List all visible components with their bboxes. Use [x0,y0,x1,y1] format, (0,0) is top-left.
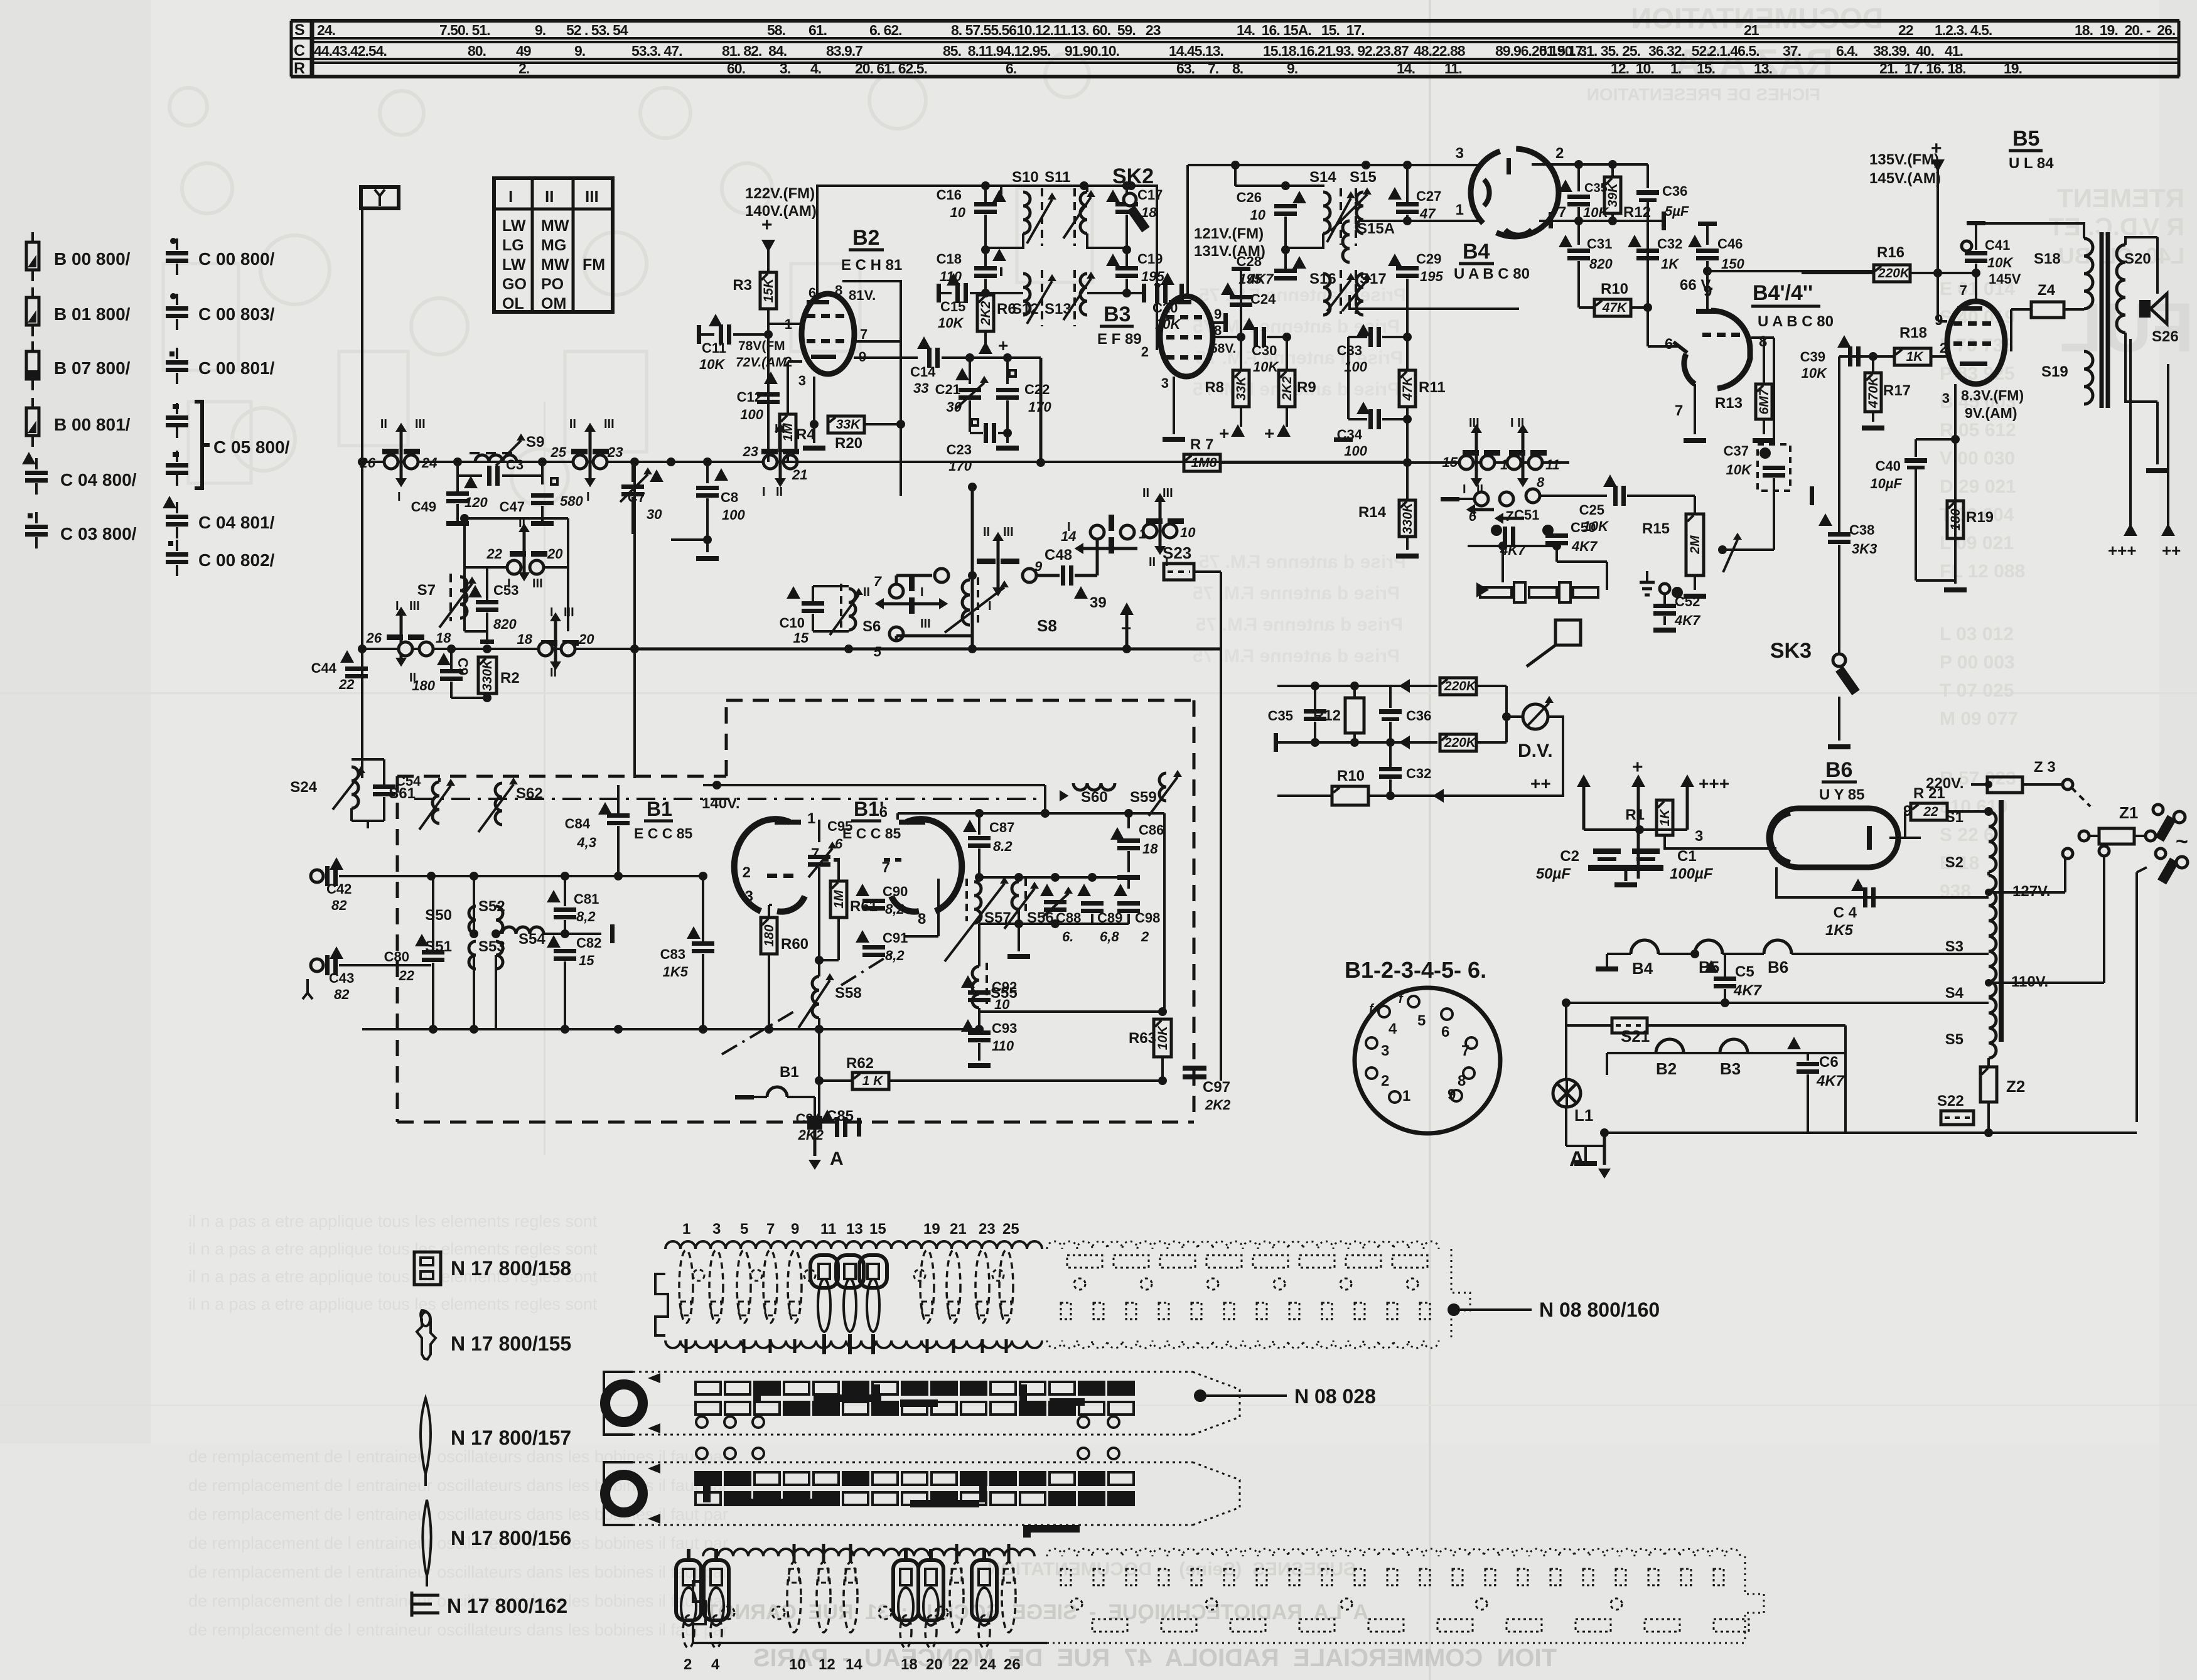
wire DV top [1277,685,1390,687]
svg-text:131V.(AM): 131V.(AM) [1194,243,1265,260]
svg-text:9V.(AM): 9V.(AM) [1965,405,2017,421]
wire IF2 top [1156,185,1158,186]
svg-text:I: I [550,606,554,619]
svg-text:C98: C98 [1135,910,1160,926]
svg-text:14. 16. 15A. 15. 17.: 14. 16. 15A. 15. 17. [1237,22,1365,38]
svg-text:R4: R4 [796,426,815,443]
svg-text:S24: S24 [290,779,317,796]
svg-text:47K: 47K [1602,301,1628,315]
svg-text:C86: C86 [1139,822,1164,838]
svg-text:7: 7 [874,574,883,589]
speaker S26 [2139,300,2151,318]
svg-text:7: 7 [1960,282,1967,298]
svg-text:61.: 61. [808,22,827,38]
svg-text:+: + [998,336,1008,355]
svg-text:140V.(AM): 140V.(AM) [745,203,817,220]
svg-text:N 17 800/158: N 17 800/158 [451,1257,571,1280]
svg-text:Prise d antenne F.M. 75: Prise d antenne F.M. 75 [1196,614,1403,635]
svg-text:III: III [409,599,420,613]
A arrow power [1600,1128,1609,1137]
socket pin 9 [1451,1090,1462,1101]
capacitor C36b [1389,686,1392,708]
coil S15A [1343,221,1350,262]
socket pin 7 [1466,1037,1477,1049]
svg-text:III: III [604,417,615,431]
svg-text:58.: 58. [767,22,785,38]
svg-text:I II: I II [1510,416,1524,430]
C1C2 ground [1588,865,1663,871]
svg-text:145V: 145V [1989,271,2021,287]
svg-text:330K: 330K [480,658,495,691]
svg-text:8.2: 8.2 [993,838,1013,854]
capacitor C36 [1646,164,1649,188]
svg-text:23: 23 [743,444,758,459]
capacitor C90 [856,884,869,896]
svg-text:B1-2-3-4-5- 6.: B1-2-3-4-5- 6. [1345,957,1486,983]
svg-text:8,2: 8,2 [576,909,596,924]
coil S15 [1356,192,1363,233]
capacitor C20 [1127,292,1142,294]
wire plate bus 296 [816,185,1131,187]
svg-text:C16: C16 [937,187,962,203]
capacitor C86 [1127,813,1130,828]
D.V. meter [1505,686,1508,742]
capacitor C91 [856,930,869,943]
svg-text:145V.(AM): 145V.(AM) [1869,170,1941,187]
svg-text:C40: C40 [1876,458,1901,474]
coil S51 [469,941,476,969]
svg-text:C83: C83 [660,946,685,962]
svg-text:1.: 1. [1670,60,1681,77]
svg-text:C15: C15 [940,299,965,314]
svg-text:8: 8 [918,911,926,928]
legend dial lamp B 07 800 [31,341,34,351]
svg-text:195: 195 [1238,271,1262,287]
coil S6 [849,589,856,630]
coil S60 [1073,783,1115,790]
svg-text:3.: 3. [780,60,790,77]
resistor R2 330K [478,657,497,693]
pickup jack [1555,620,1581,645]
svg-text:1K: 1K [1658,808,1672,827]
lamp L1 [1553,1079,1581,1107]
svg-text:I: I [586,490,590,504]
coil S10 [1001,185,1012,187]
svg-text:2: 2 [743,864,751,881]
svg-text:Prise d antenne F.M. 75: Prise d antenne F.M. 75 [1193,583,1400,604]
svg-text:II: II [380,417,387,431]
svg-text:180: 180 [1948,508,1963,530]
IF1 window frame [1000,186,1002,195]
svg-text:C36: C36 [1406,708,1431,724]
svg-text:R13: R13 [1715,395,1743,412]
svg-text:R V.D.C. ET: R V.D.C. ET [2049,213,2184,241]
svg-text:C29: C29 [1416,251,1441,267]
capacitor C24 [1232,267,1250,271]
svg-text:C11: C11 [702,340,726,356]
svg-text:S15: S15 [1350,169,1377,186]
svg-text:9.: 9. [535,22,545,38]
svg-text:6M7: 6M7 [1757,388,1771,414]
R21 wire to S1 [1947,810,1989,813]
svg-text:220V.: 220V. [1926,775,1964,792]
coil S55 [972,966,979,1008]
svg-text:N 17 800/162: N 17 800/162 [447,1595,567,1617]
svg-text:III: III [920,617,931,631]
svg-text:C91: C91 [883,930,908,946]
svg-text:63.: 63. [1176,60,1195,77]
svg-text:8. 57.55.56.: 8. 57.55.56. [951,22,1020,38]
socket pin 2 [1366,1067,1377,1079]
bottom heater rail [1574,1161,1597,1166]
capacitor C18 [992,249,1006,261]
svg-text:3: 3 [1381,1042,1389,1059]
svg-text:220K: 220K [1444,679,1477,693]
svg-text:2: 2 [684,1656,692,1673]
svg-text:6. 62.: 6. 62. [869,22,902,38]
svg-text:44.43.42.54.: 44.43.42.54. [314,43,387,59]
svg-text:C92: C92 [992,979,1017,995]
svg-text:14: 14 [846,1656,862,1673]
tube B4 (diodes) [1471,149,1559,237]
svg-text:2K2: 2K2 [1205,1097,1231,1113]
svg-text:de remplacement de l entraineu: de remplacement de l entraineur oscillat… [188,1505,728,1524]
svg-text:R1: R1 [1625,806,1645,823]
svg-text:6: 6 [835,836,843,852]
svg-text:C22: C22 [1024,382,1050,397]
svg-text:GO: GO [502,276,527,293]
stub bar [565,933,601,935]
resistor R63 10K [1154,1019,1171,1057]
svg-text:170: 170 [948,458,972,474]
switch comb strip lower [676,1544,1764,1673]
svg-text:100: 100 [722,507,745,523]
heater rail 2 [1566,1002,1989,1004]
SK3 switch [1774,495,1809,496]
svg-text:47K: 47K [1400,375,1415,401]
svg-text:I: I [1165,555,1169,569]
svg-text:B 07 800/: B 07 800/ [54,358,131,378]
svg-text:R8: R8 [1205,379,1224,396]
svg-text:C 04 800/: C 04 800/ [60,470,137,490]
svg-text:180: 180 [762,924,776,946]
coil S59 [1159,773,1166,801]
FM unit dashed enclosure [397,775,726,778]
capacitor C32b [1389,742,1392,767]
svg-text:C37: C37 [1724,443,1749,459]
resistor R3 15K [760,272,776,309]
svg-text:C87: C87 [989,820,1014,835]
svg-text:4K7: 4K7 [1674,613,1701,628]
resistor R13 6M7 [1756,384,1772,419]
svg-text:1K5: 1K5 [1825,922,1854,939]
svg-text:C7: C7 [628,490,645,505]
svg-text:L 09 021: L 09 021 [1940,533,2014,554]
socket pin 4 [1378,1006,1390,1017]
svg-text:21: 21 [792,467,807,483]
svg-text:2: 2 [1555,145,1564,162]
svg-text:R10: R10 [1601,281,1628,297]
svg-text:22: 22 [1898,22,1913,38]
wire bus to B2 [780,461,803,463]
coil S61 [432,782,439,823]
fuse Z2 [1988,1066,1989,1067]
svg-text:21: 21 [1744,22,1759,38]
svg-text:S51: S51 [425,938,452,955]
svg-text:580: 580 [560,493,583,509]
svg-text:7: 7 [811,845,819,862]
coil S56 [1012,882,1019,909]
svg-text:49: 49 [516,43,531,59]
svg-text:PO: PO [541,276,564,293]
svg-text:10.12.11.13.: 10.12.11.13. [1017,22,1089,38]
capacitor C47 [551,478,557,484]
svg-text:+: + [1264,424,1274,443]
svg-text:9: 9 [1448,1086,1456,1103]
svg-text:11: 11 [820,1221,836,1238]
svg-text:5µF: 5µF [1665,203,1689,219]
svg-text:C6: C6 [1819,1054,1839,1071]
svg-text:7: 7 [1675,402,1683,419]
B5 electrodes [1953,321,1962,326]
svg-text:C31: C31 [1587,236,1612,252]
capacitors C51 C50 [1491,525,1502,536]
svg-text:6,8: 6,8 [1100,929,1119,944]
svg-text:39: 39 [1090,594,1107,611]
primary winding S1-S5 [1989,811,1996,872]
svg-text:170: 170 [1028,399,1051,415]
switch contact 18-20 lower [541,640,557,646]
part icon N17800/162 [412,1594,439,1597]
svg-text:LG: LG [502,237,524,254]
svg-text:C24: C24 [1250,291,1276,307]
capacitor C87 [963,820,977,832]
svg-text:6: 6 [808,285,816,301]
svg-text:SURESNES (Seine) - DOCUMENT: SURESNES (Seine) - DOCUMENTATION [987,1559,1356,1580]
svg-text:5: 5 [874,644,882,660]
capacitor C3 [456,462,459,476]
resistor R11 47K [1406,337,1409,370]
svg-text:10K: 10K [938,315,964,331]
svg-text:C48: C48 [1045,547,1072,564]
svg-text:C 00 800/: C 00 800/ [198,249,275,269]
capacitor C29 [1407,221,1408,264]
svg-text:S54: S54 [518,931,545,948]
svg-text:de remplacement de l entraineu: de remplacement de l entraineur oscillat… [188,1620,728,1639]
svg-text:8,2: 8,2 [885,948,905,963]
resistor R61 1M [830,881,847,918]
svg-text:N 17 800/156: N 17 800/156 [451,1527,571,1549]
svg-text:10K: 10K [1726,462,1753,478]
svg-text:82: 82 [331,897,347,913]
svg-text:S13: S13 [1045,301,1072,318]
svg-text:C93: C93 [992,1020,1017,1036]
svg-text:C18: C18 [937,251,962,267]
coil S12 [1023,274,1030,315]
svg-text:C: C [294,42,305,60]
svg-text:220K: 220K [1444,736,1477,750]
svg-text:2: 2 [1381,1073,1389,1089]
wire S7 oscillator cell [465,517,568,520]
svg-text:1M: 1M [832,890,846,909]
capacitor C93 [961,1019,975,1032]
svg-text:3: 3 [1456,145,1464,162]
svg-text:820: 820 [1589,256,1613,272]
wire C14 to AVC bus [1039,358,1043,463]
svg-text:100: 100 [740,407,763,422]
svg-text:I: I [1067,520,1071,534]
svg-text:82: 82 [334,987,350,1002]
svg-text:R11: R11 [1419,379,1446,396]
svg-text:R18: R18 [1899,324,1927,341]
capacitor C40 [1916,438,1955,441]
svg-text:1M: 1M [781,423,795,442]
svg-text:4: 4 [711,1656,720,1673]
coil S8 [962,580,970,625]
svg-text:3: 3 [745,888,753,905]
capacitor C54 [383,759,385,784]
svg-text:C82: C82 [576,935,601,951]
svg-text:S8: S8 [1037,616,1057,635]
socket pin 6 [1441,1009,1453,1020]
wire Z4 feed [2011,351,2084,352]
B1 grid dashes [767,874,777,878]
part icon N17800/157 [421,1398,431,1474]
capacitor C37 dashed [1758,444,1790,491]
svg-text:4,3: 4,3 [576,835,596,850]
svg-text:11: 11 [1545,457,1560,473]
svg-text:C 00 803/: C 00 803/ [198,304,275,324]
part icon N17800/158 [414,1252,441,1285]
svg-text:I: I [920,586,924,599]
switch comb strip upper [655,1221,1470,1354]
svg-text:C35: C35 [1268,708,1293,724]
svg-text:60.: 60. [727,60,745,77]
svg-text:C26: C26 [1237,190,1262,205]
svg-text:C14: C14 [910,364,936,380]
svg-text:330K: 330K [1400,501,1415,534]
svg-text:37.: 37. [1783,43,1801,59]
svg-text:A: A [1569,1147,1585,1171]
legend dial lamp B 00 801 [31,398,34,408]
svg-text:18: 18 [1141,205,1157,220]
svg-text:C32: C32 [1406,766,1431,781]
pointer N 08 028 [1194,1389,1206,1402]
socket pin 8 [1463,1067,1475,1079]
svg-text:1K: 1K [1906,350,1925,364]
svg-text:C30: C30 [1252,343,1277,358]
svg-text:R60: R60 [781,936,808,953]
wire 140V top [703,784,1045,786]
svg-text:FICHES DE PRESENTATION: FICHES DE PRESENTATION [1587,85,1820,104]
svg-text:135V.(FM): 135V.(FM) [1869,151,1939,168]
legend dial lamp B 01 800 [31,287,34,297]
svg-text:S6: S6 [862,618,881,635]
svg-text:10µF: 10µF [1870,476,1902,491]
capacitor C16 [984,186,987,202]
resistor 220K lower [1440,734,1476,751]
svg-text:2: 2 [1940,340,1947,356]
svg-text:7: 7 [882,859,890,876]
svg-text:S53: S53 [478,938,505,955]
svg-text:4K7: 4K7 [1816,1073,1845,1089]
svg-text:B3: B3 [1104,302,1131,326]
svg-text:6: 6 [879,804,888,821]
legend capacitor C 03 800 [35,512,38,523]
heater bumps B4 B5 B6 [1596,966,1618,971]
svg-text:B 00 801/: B 00 801/ [54,415,131,434]
svg-text:15: 15 [1442,454,1458,470]
capacitor C28 [1274,269,1297,273]
svg-text:25: 25 [551,444,567,460]
svg-text:C23: C23 [947,442,972,457]
svg-text:C38: C38 [1849,522,1874,538]
svg-text:III: III [532,577,543,591]
svg-text:C25: C25 [1579,502,1604,518]
coil S16 [1323,274,1330,315]
svg-text:C85: C85 [826,1108,854,1125]
svg-text:+: + [1121,618,1131,638]
svg-text:C 03 800/: C 03 800/ [60,524,137,543]
svg-text:1: 1 [1402,1088,1410,1105]
capacitor C46 [1698,222,1717,226]
socket pin 5 [1408,996,1419,1007]
wire S59 tank [1163,813,1166,1012]
resistor R7 1M8 [1184,454,1220,471]
resistor R10 47K [1594,299,1631,316]
svg-text:820: 820 [493,616,517,632]
svg-text:7: 7 [860,326,868,342]
svg-text:S9: S9 [526,434,544,451]
wire DV mid [1274,733,1278,752]
capacitor C94 [819,1114,820,1127]
capacitor C15 [937,284,941,302]
svg-text:S17: S17 [1360,270,1387,287]
svg-text:RTEMENT: RTEMENT [2057,183,2184,213]
trimmer C95 [819,813,820,853]
B+ feeds +++ [2129,339,2132,535]
svg-text:II: II [1149,555,1156,569]
svg-text:15: 15 [793,630,809,646]
svg-text:~: ~ [2176,830,2188,853]
svg-text:S52: S52 [478,898,505,915]
svg-text:2: 2 [1141,344,1149,360]
svg-text:S26: S26 [2152,328,2179,345]
coil S11 [1080,192,1087,233]
svg-text:II: II [518,516,525,530]
svg-text:S15A: S15A [1357,220,1395,237]
svg-text:S1: S1 [1945,809,1963,826]
svg-text:10: 10 [1180,525,1196,540]
capacitor C25 [1539,496,1599,499]
capacitor C33 [1378,336,1407,338]
capacitor C41 [1967,221,1985,225]
svg-text:10: 10 [994,997,1010,1012]
svg-text:8: 8 [835,282,842,298]
band table I II III [494,178,613,313]
svg-text:C9: C9 [455,658,471,675]
svg-text:81. 82. 84.: 81. 82. 84. [722,43,787,59]
svg-text:I: I [397,490,401,504]
svg-text:72V.(AM: 72V.(AM [736,355,787,370]
svg-text:100µF: 100µF [1670,865,1714,882]
svg-text:4K7: 4K7 [1733,982,1763,999]
coil S7 [460,577,467,618]
svg-text:S59: S59 [1130,789,1157,806]
svg-text:B1: B1 [780,1064,799,1081]
B3 electrodes [1166,315,1174,319]
socket pin 3 [1366,1037,1377,1049]
